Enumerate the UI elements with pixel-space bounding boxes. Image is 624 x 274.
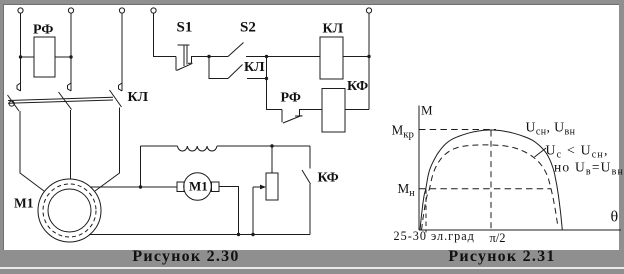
- curve dashed Uс: [422, 145, 559, 230]
- button S1 left lead: [175, 57, 177, 71]
- contactor КЛ hinge circle: [9, 101, 14, 106]
- svg-text:КФ: КФ: [318, 171, 339, 186]
- contact КЛ aux left lead: [209, 57, 228, 79]
- node S1-S2: [207, 55, 210, 58]
- wire phase B to motor: [70, 110, 72, 179]
- dashed line 25-30: [425, 190, 427, 233]
- button S2 left lead: [209, 56, 228, 58]
- contactor КЛ blade 1: [8, 95, 20, 111]
- terminal control N: [366, 8, 371, 13]
- wire right rail: [368, 13, 370, 109]
- button S2 arm: [228, 43, 244, 57]
- wire phase C to motor: [95, 108, 120, 192]
- contact jaw phase B: [68, 83, 72, 91]
- inductor choke: [178, 146, 217, 151]
- node rheostat top: [270, 144, 273, 147]
- contact КЛ aux right lead: [247, 78, 267, 80]
- dashed line Мкр: [419, 129, 496, 131]
- contactor КЛ blade 3: [110, 90, 122, 107]
- svg-text:КЛ: КЛ: [244, 60, 265, 75]
- svg-text:РФ: РФ: [33, 23, 53, 38]
- wire rheostat top lead: [271, 146, 273, 173]
- switch КФ bottom lead: [309, 184, 311, 235]
- svg-text:S1: S1: [177, 20, 193, 36]
- contact РФ right lead: [300, 110, 323, 117]
- contact РФ arm: [283, 116, 302, 124]
- node aux join: [265, 77, 268, 80]
- rheostat wiper arrowhead: [260, 185, 266, 190]
- contact РФ left lead: [281, 110, 283, 123]
- terminal L1: [18, 8, 23, 13]
- wire РФ coil left tap: [21, 56, 35, 58]
- rheostat КФ body: [266, 173, 278, 200]
- coil КЛ: [320, 37, 343, 79]
- terminal L3: [119, 8, 124, 13]
- svg-text:π/2: π/2: [490, 231, 506, 245]
- svg-text:25-30 эл.град: 25-30 эл.град: [394, 229, 475, 243]
- svg-text:КФ: КФ: [347, 79, 368, 94]
- button S1 plunger stems: [184, 45, 187, 66]
- button S1 tick: [188, 62, 193, 64]
- chart X axis: [419, 229, 621, 231]
- contactor КЛ linkage bar: [8, 97, 113, 103]
- wire rotor riser: [140, 146, 142, 187]
- wire phase C drop: [121, 13, 123, 91]
- terminal L2: [68, 8, 73, 13]
- motor M1 rotor: [48, 189, 91, 232]
- wire phase A drop: [20, 13, 22, 91]
- dc machine M1 left brush: [177, 182, 184, 192]
- rheostat wiper arrow: [253, 186, 262, 188]
- svg-text:М1: М1: [189, 179, 208, 194]
- wire РФ coil right tap: [55, 56, 71, 58]
- svg-text:КЛ: КЛ: [128, 90, 149, 105]
- contact jaw phase C: [119, 83, 123, 91]
- svg-text:θ: θ: [611, 209, 619, 226]
- wire top run to switch: [217, 145, 310, 147]
- leader to dashed curve: [535, 148, 547, 157]
- wire wiper drop: [252, 187, 254, 235]
- svg-text:М: М: [421, 103, 433, 118]
- wire dc machine right lead: [219, 187, 239, 235]
- contact КЛ aux arm: [228, 65, 243, 79]
- node rotor upper: [139, 185, 142, 188]
- button S1 plunger bar: [178, 44, 190, 46]
- switch КФ top lead: [309, 146, 311, 169]
- button S1 arm: [177, 64, 192, 71]
- svg-text:Мн: Мн: [398, 181, 416, 199]
- dc machine M1 right brush: [212, 182, 220, 192]
- contact РФ tick: [295, 115, 303, 117]
- motor M1 stator: [38, 179, 101, 242]
- contactor КЛ blade 2: [59, 92, 72, 110]
- node rung branch: [265, 55, 268, 58]
- svg-text:РФ: РФ: [281, 91, 301, 106]
- node РФ left: [19, 55, 22, 58]
- dashed line Мн: [419, 188, 551, 190]
- node РФ right: [69, 55, 72, 58]
- motor M1 gap (dashed): [43, 184, 96, 237]
- dc machine M1 armature: [184, 173, 212, 201]
- node dc machine bottom: [237, 233, 240, 236]
- dashed line π/2: [490, 131, 492, 233]
- chart Y axis: [418, 106, 420, 231]
- node coil КЛ right: [367, 55, 370, 58]
- wire phase B drop: [70, 13, 72, 91]
- svg-text:Uсн, Uвн: Uсн, Uвн: [526, 120, 576, 138]
- wire control left drop: [154, 13, 177, 56]
- svg-text:S2: S2: [240, 20, 256, 36]
- caption Рисунок 2.30: [130, 248, 242, 266]
- wire coil КФ right: [345, 109, 369, 111]
- wire phase A to motor: [20, 111, 44, 191]
- contact jaw phase A: [17, 83, 21, 91]
- wire rotor upper: [90, 186, 177, 188]
- curve solid Uсн: [420, 130, 562, 230]
- svg-text:но Uв=Uвн: но Uв=Uвн: [554, 160, 624, 178]
- button S1 right lead: [192, 57, 210, 64]
- wire rung to coil: [246, 56, 320, 58]
- svg-text:Uс < Uсн,: Uс < Uсн,: [546, 143, 609, 161]
- caption Рисунок 2.31: [446, 248, 558, 266]
- wire coil КЛ right: [343, 56, 369, 58]
- terminal control L: [151, 8, 156, 13]
- wire branch rail: [267, 57, 283, 110]
- wire rotor top run: [141, 145, 178, 147]
- svg-text:М1: М1: [14, 196, 34, 211]
- svg-text:КЛ: КЛ: [323, 22, 344, 37]
- switch КФ arm: [302, 170, 311, 184]
- svg-text:Мкр: Мкр: [392, 123, 414, 141]
- wire rotor lower rail: [89, 234, 310, 236]
- coil КФ: [322, 89, 345, 133]
- node wiper bottom: [251, 233, 254, 236]
- relay coil РФ: [34, 37, 55, 77]
